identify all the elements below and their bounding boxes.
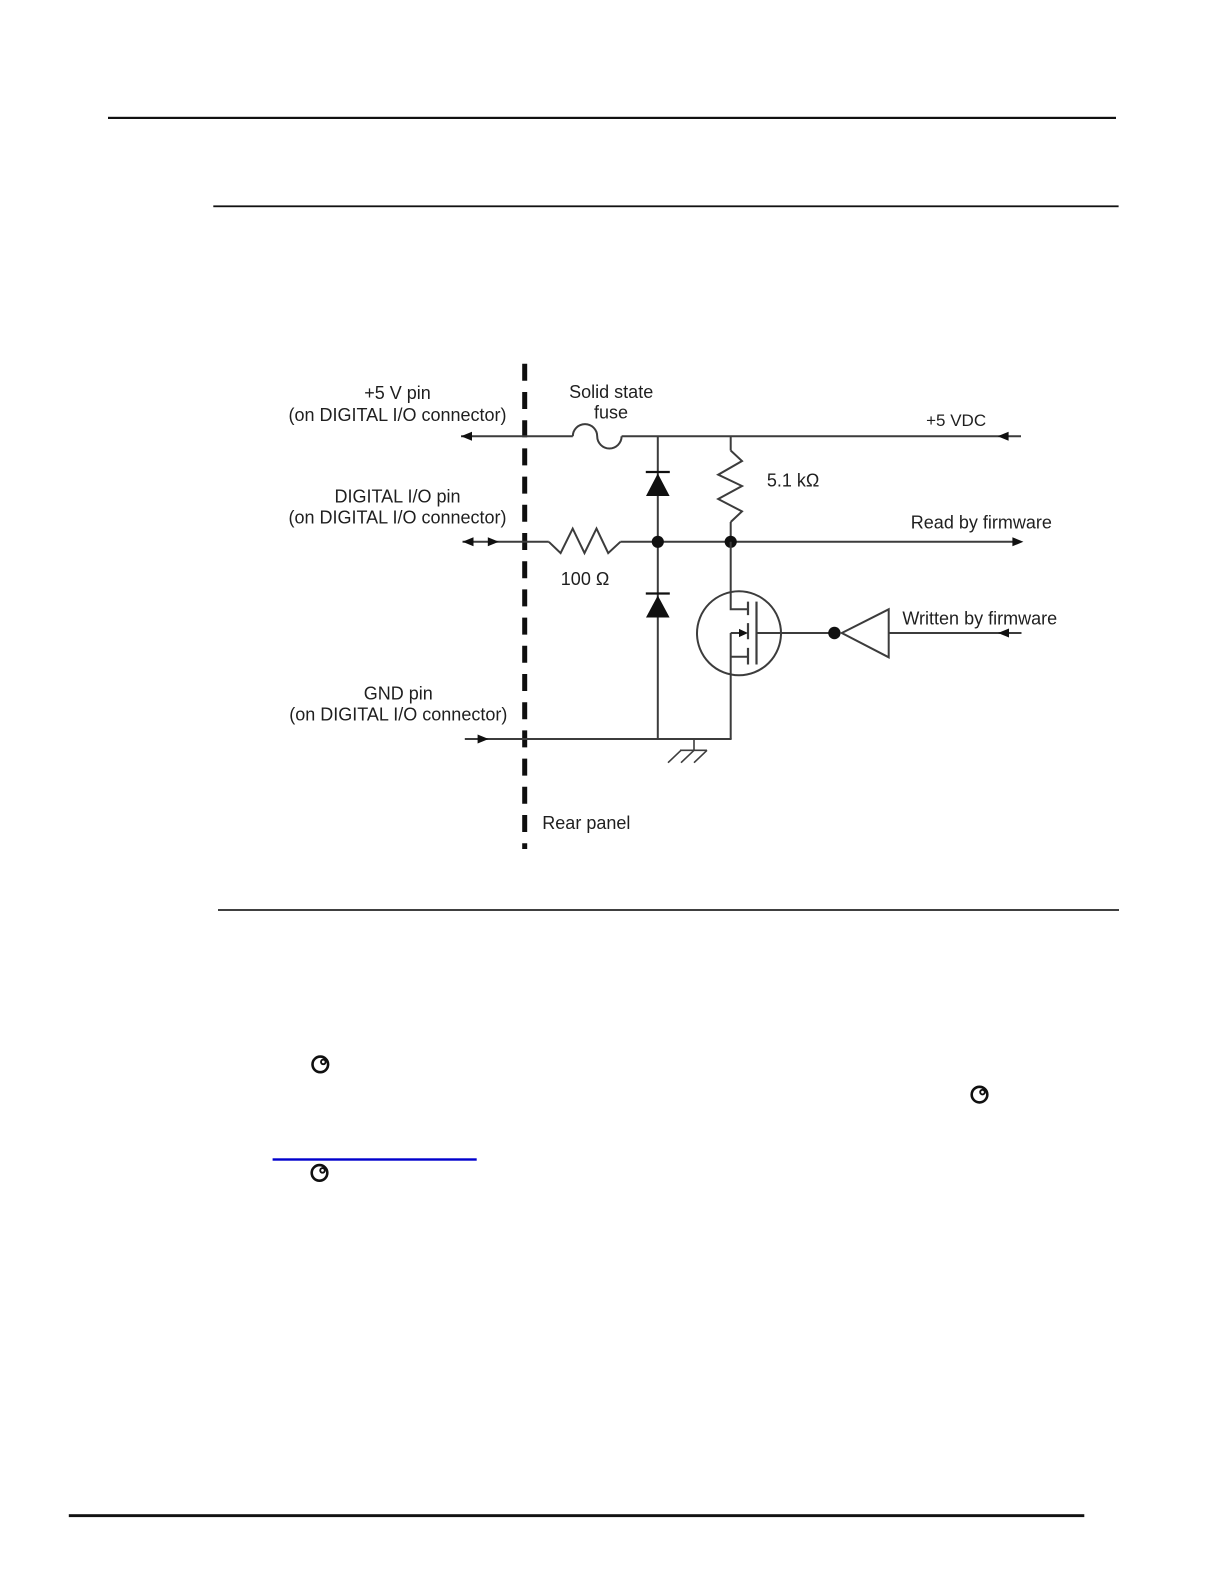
wire +5V rail right segment <box>622 435 1021 437</box>
transistor Q1 source lead <box>730 633 732 739</box>
transistor Q1 body arrowhead (points right) <box>739 629 748 637</box>
footnote icon 2 <box>972 1087 988 1103</box>
svg-text:fuse: fuse <box>594 402 628 422</box>
junction node A (clamp / I/O rail) <box>652 536 664 548</box>
rear panel boundary dashed line <box>522 364 527 849</box>
svg-text:DIGITAL I/O pin: DIGITAL I/O pin <box>334 486 460 506</box>
svg-text:Solid state: Solid state <box>569 382 653 402</box>
section rule below figure <box>218 909 1119 911</box>
svg-text:5.1 kΩ: 5.1 kΩ <box>767 471 819 491</box>
resistor R1 100 Ohm zigzag <box>549 529 621 554</box>
svg-text:+5 VDC: +5 VDC <box>926 411 986 430</box>
buffer U1 triangle <box>842 609 889 657</box>
svg-text:100 Ω: 100 Ω <box>561 569 610 589</box>
transistor Q1 body circle <box>697 591 781 675</box>
footnote icon 1 <box>313 1057 329 1073</box>
arrowhead DIGITAL I/O right (points right) <box>488 537 499 546</box>
arrowhead Read by firmware (points right) <box>1012 537 1023 546</box>
arrowhead DIGITAL I/O left (points left) <box>463 537 474 546</box>
node +5V pin label <box>288 383 506 425</box>
wire DIGITAL I/O rail right segment <box>620 541 1015 543</box>
transistor Q1 gate bar <box>755 602 757 665</box>
transistor Q1 gate lead <box>757 632 835 634</box>
diode D1 cathode bar <box>646 471 670 473</box>
wire clamp branch vertical <box>657 436 659 739</box>
transistor Q1 drain lead <box>731 542 748 609</box>
wire pull-up top stub <box>730 436 732 450</box>
junction node C (gate / buffer) <box>828 627 840 639</box>
fuse F1 label <box>569 382 653 422</box>
arrowhead Written by firmware (points left) <box>998 629 1009 638</box>
svg-text:GND pin: GND pin <box>364 684 433 704</box>
header rule top <box>108 117 1116 119</box>
svg-text:(on DIGITAL I/O connector): (on DIGITAL I/O connector) <box>288 405 506 425</box>
diode D1 <box>646 474 670 497</box>
wire pull-up bottom stub <box>730 522 732 542</box>
svg-text:(on DIGITAL I/O connector): (on DIGITAL I/O connector) <box>288 508 506 528</box>
header rule second <box>213 205 1118 207</box>
svg-text:Written by firmware: Written by firmware <box>902 609 1057 629</box>
node DIGITAL I/O pin label <box>288 486 506 527</box>
junction node B (pull-up / I/O rail) <box>725 536 737 548</box>
svg-text:+5 V pin: +5 V pin <box>364 383 431 403</box>
transistor Q1 source bar <box>731 656 748 658</box>
fuse F1 solid state fuse symbol <box>573 424 622 448</box>
wire Written by firmware <box>889 632 1022 634</box>
wire DIGITAL I/O rail left segment <box>463 541 549 543</box>
hyperlink underline <box>273 1158 477 1160</box>
diode D2 cathode bar <box>646 592 670 594</box>
transistor Q1 channel segments <box>747 602 749 665</box>
diode D2 <box>646 596 670 618</box>
arrowhead GND pin (points right) <box>478 735 489 744</box>
arrowhead +5 VDC input (points left) <box>998 432 1009 441</box>
arrowhead +5V pin (points left) <box>461 432 472 441</box>
svg-text:(on DIGITAL I/O connector): (on DIGITAL I/O connector) <box>289 705 507 725</box>
node GND pin label <box>289 684 507 725</box>
svg-text:Rear panel: Rear panel <box>542 813 630 833</box>
transistor Q1 body arrow line <box>731 632 740 634</box>
footer rule <box>69 1514 1085 1517</box>
wire +5V rail left segment <box>461 435 573 437</box>
ground chassis symbol <box>668 739 707 763</box>
resistor R2 5.1 kOhm zigzag <box>718 451 742 523</box>
svg-text:Read by firmware: Read by firmware <box>911 512 1052 532</box>
footnote icon 3 <box>312 1165 328 1181</box>
wire GND rail <box>465 738 732 740</box>
